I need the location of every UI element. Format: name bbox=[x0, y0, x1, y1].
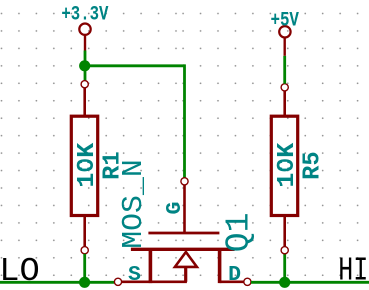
svg-text:D: D bbox=[228, 263, 241, 287]
svg-text:LO: LO bbox=[0, 253, 40, 290]
pin circle: R5 bottom pin bbox=[281, 247, 288, 254]
wire: +5V to R5 bbox=[283, 56, 286, 84]
wire: R5 bottom to HI rail bbox=[283, 254, 286, 282]
pin circle: Q1 drain pin bbox=[244, 278, 251, 285]
pin circle: R5 top pin bbox=[281, 84, 288, 91]
value label 10K (R5) zero-counter patch bbox=[282, 162, 287, 169]
pin lead: R1 top bbox=[83, 88, 86, 117]
junction top-left bbox=[79, 60, 90, 71]
pin circle: gate pin of Q1 bbox=[181, 178, 188, 185]
transistor Q1 channel bar bbox=[131, 248, 235, 251]
transistor Q1 right leg bbox=[218, 249, 222, 283]
svg-text:R5: R5 bbox=[299, 151, 326, 180]
svg-text:G: G bbox=[163, 202, 187, 215]
junction bottom-left bbox=[79, 277, 90, 288]
wire: corner down to gate pin (vertical) bbox=[183, 64, 186, 177]
svg-text:S: S bbox=[128, 263, 141, 287]
transistor Q1 left leg bbox=[149, 249, 153, 283]
wire: HI rail bbox=[251, 281, 369, 284]
power symbol +5V bbox=[279, 26, 290, 56]
pin circle: R1 bottom pin bbox=[81, 247, 88, 254]
svg-text:MOS_N: MOS_N bbox=[117, 159, 150, 249]
pin circle: R1 top pin bbox=[81, 81, 88, 88]
value label 10K (R1) zero-counter patch bbox=[82, 162, 87, 169]
junction bottom-right bbox=[279, 277, 290, 288]
svg-text:+5V: +5V bbox=[270, 9, 299, 32]
pin lead: R5 bottom bbox=[283, 216, 286, 247]
resistor R5 body bbox=[271, 116, 297, 215]
transistor Q1 substrate arrow bbox=[175, 252, 197, 267]
resistor R1 body bbox=[71, 116, 97, 215]
pin lead: R5 top bbox=[283, 91, 286, 117]
pin circle: Q1 source pin bbox=[114, 278, 121, 285]
wire: junction to gate corner (horizontal) bbox=[85, 64, 185, 67]
svg-text:HI: HI bbox=[338, 253, 368, 290]
svg-text:10K: 10K bbox=[274, 142, 301, 188]
power symbol +3.3V bbox=[79, 24, 90, 51]
pin lead: drain bbox=[220, 280, 244, 283]
wire: LO rail bbox=[0, 281, 114, 284]
pin lead: R1 bottom bbox=[83, 216, 86, 247]
transistor Q1 gate stem bbox=[183, 185, 186, 233]
transistor Q1 gate plate bbox=[148, 232, 219, 235]
svg-text:10K: 10K bbox=[74, 142, 101, 188]
wire: R1 bottom to LO rail bbox=[83, 254, 86, 282]
pin lead: source + substrate bar bbox=[122, 280, 187, 283]
transistor Q1 substrate stem bbox=[184, 267, 187, 282]
svg-text:Q1: Q1 bbox=[221, 213, 258, 253]
wire: +3.3V to junction bbox=[84, 51, 87, 81]
